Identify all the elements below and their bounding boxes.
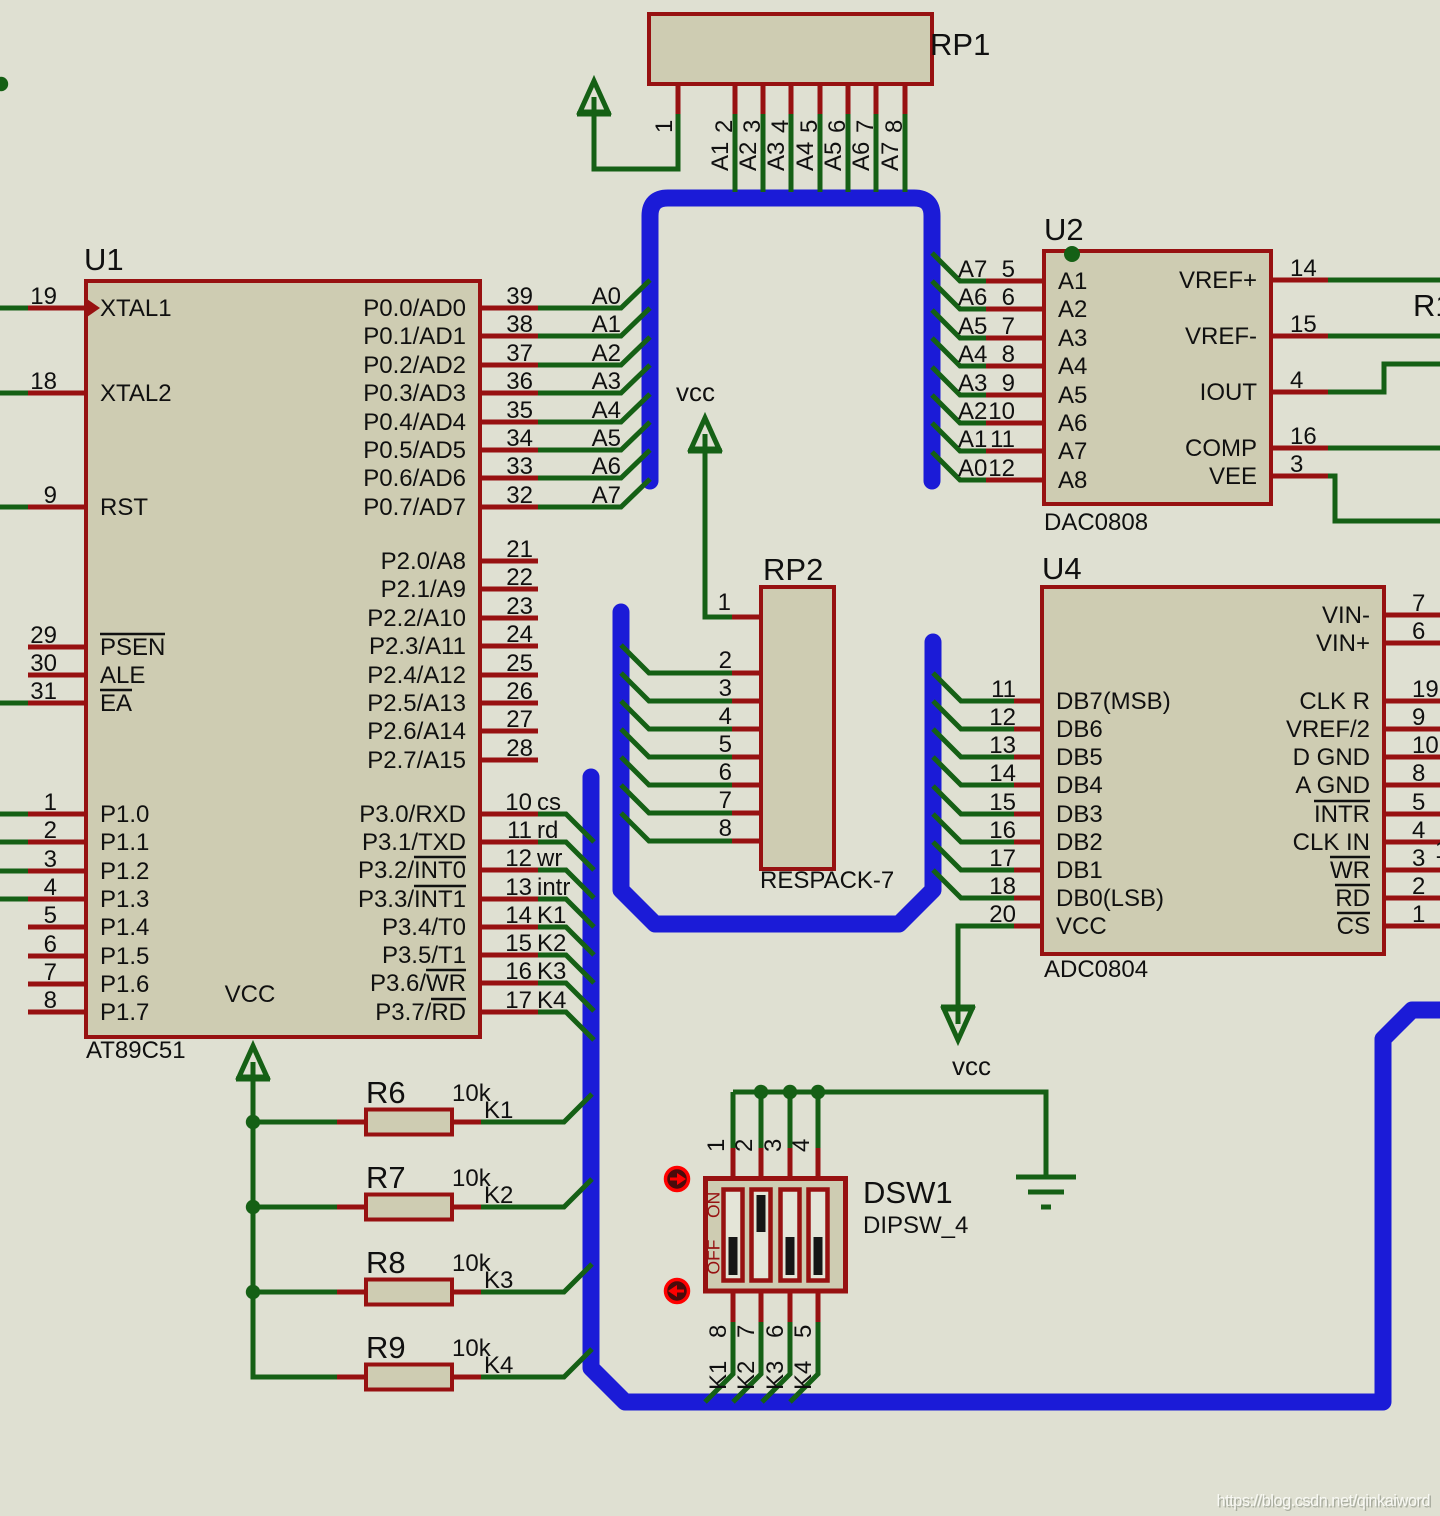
U1 pin 17 (P3.7/RD) stub	[480, 1010, 538, 1015]
svg-text:8: 8	[1002, 341, 1015, 368]
wire VREF- to right edge	[1328, 334, 1440, 339]
svg-text:intr: intr	[537, 874, 570, 901]
U1 pin 36 (P0.3/AD3) stub	[480, 391, 538, 396]
U2 pin 6 (A2) stub	[986, 307, 1044, 312]
svg-text:K1: K1	[537, 902, 566, 929]
wire P1.2 to left edge	[0, 869, 28, 874]
wire from data bus to RP2 pin 6	[621, 757, 732, 785]
svg-text:P3.2/INT0: P3.2/INT0	[358, 857, 466, 884]
svg-text:RESPACK-7: RESPACK-7	[760, 867, 894, 894]
svg-text:P0.5/AD5: P0.5/AD5	[363, 437, 466, 464]
svg-text:ADC0804: ADC0804	[1044, 956, 1148, 983]
resistor R6 body	[366, 1110, 452, 1135]
svg-text:A6: A6	[1058, 410, 1087, 437]
wire A4 from address bus to U2	[932, 338, 986, 366]
svg-text:P2.0/A8: P2.0/A8	[381, 548, 466, 575]
RP2 pin 1 stub	[732, 615, 761, 620]
wire DSW1 pin 4 to vcc rail	[816, 1092, 821, 1148]
U4 pin 9 (VREF/2) stub	[1384, 727, 1440, 732]
svg-text:P2.4/A12: P2.4/A12	[367, 662, 466, 689]
svg-text:A7: A7	[1058, 438, 1087, 465]
wire A7 from RP1 pin 8 to address bus	[903, 114, 908, 192]
wire across DSW1 top pins to ground	[733, 1092, 1046, 1175]
svg-text:7: 7	[719, 787, 732, 814]
svg-text:A7: A7	[958, 256, 987, 283]
RP1 pin 3 stub	[761, 84, 766, 114]
DSW1 bottom pin 7 stub	[759, 1293, 764, 1322]
svg-text:P1.6: P1.6	[100, 971, 149, 998]
U4 pin 1 (CS) stub	[1384, 924, 1440, 929]
svg-text:A3: A3	[592, 368, 621, 395]
svg-text:P1.1: P1.1	[100, 829, 149, 856]
svg-text:DB5: DB5	[1056, 744, 1103, 771]
wire P1.3 to left edge	[0, 897, 28, 902]
svg-text:12: 12	[505, 845, 532, 872]
svg-text:1: 1	[1435, 837, 1440, 864]
svg-text:4: 4	[767, 120, 794, 133]
wire A1 from U1 to address bus	[538, 308, 650, 336]
svg-text:31: 31	[30, 678, 57, 705]
junction dot on VCC rail at R7	[246, 1200, 260, 1214]
U1 pin 31 (EA) stub	[28, 701, 86, 706]
svg-text:12: 12	[988, 455, 1015, 482]
wire A4 from U1 to address bus	[538, 394, 650, 422]
wire EA to left edge	[0, 701, 28, 706]
svg-text:10: 10	[988, 398, 1015, 425]
svg-text:36: 36	[506, 368, 533, 395]
bus from RP1 pins down both sides (address bus loop)	[650, 198, 932, 481]
power arrow vcc below U4	[941, 1005, 975, 1040]
U1 pin 3 (P1.2) stub	[28, 869, 86, 874]
U4 pin 8 (A GND) stub	[1384, 783, 1440, 788]
U2 pin 14 (VREF+) stub	[1271, 278, 1328, 283]
svg-text:U1: U1	[84, 242, 124, 277]
svg-text:R7: R7	[366, 1160, 406, 1195]
U4 pin 20 (VCC) stub	[1014, 924, 1042, 929]
U2 pin 16 (COMP) stub	[1271, 446, 1328, 451]
wire A1 from RP1 pin 2 to address bus	[733, 114, 738, 192]
svg-text:cs: cs	[537, 789, 561, 816]
svg-text:K2: K2	[733, 1361, 760, 1390]
svg-text:A4: A4	[1058, 353, 1087, 380]
svg-text:P3.4/T0: P3.4/T0	[382, 914, 466, 941]
svg-text:3: 3	[739, 120, 766, 133]
svg-text:18: 18	[30, 368, 57, 395]
svg-text:P3.7/RD: P3.7/RD	[375, 999, 466, 1026]
svg-text:5: 5	[719, 731, 732, 758]
svg-text:3: 3	[1290, 451, 1303, 478]
wire RST to left edge	[0, 505, 28, 510]
DSW1 top pin 3 stub	[788, 1148, 793, 1177]
wire COMP to right edge	[1328, 446, 1440, 451]
wire U4 VCC down to power arrow	[958, 926, 1014, 1008]
svg-text:7: 7	[1002, 313, 1015, 340]
U2 pin 9 (A5) stub	[986, 393, 1044, 398]
wire VCC rail to R7	[253, 1205, 337, 1210]
U4 pin 5 (INTR) stub	[1384, 812, 1440, 817]
svg-text:1: 1	[651, 120, 678, 133]
svg-text:19: 19	[30, 283, 57, 310]
U1 pin 34 (P0.5/AD5) stub	[480, 448, 538, 453]
wire from data bus to RP2 pin 5	[621, 729, 732, 757]
U4 pin 16 (DB2) stub	[1014, 840, 1042, 845]
svg-text:K2: K2	[484, 1182, 513, 1209]
U2 pin-1 marker dot	[1064, 246, 1080, 262]
svg-text:4: 4	[788, 1139, 815, 1152]
DSW1 switch slot 3	[781, 1190, 800, 1281]
svg-text:P2.1/A9: P2.1/A9	[381, 576, 466, 603]
wire IOUT to right edge	[1328, 364, 1440, 392]
junction dot DSW1 pin 2	[754, 1085, 768, 1099]
svg-text:2: 2	[711, 120, 738, 133]
svg-text:DB3: DB3	[1056, 801, 1103, 828]
RP2 pin 8 stub	[732, 839, 761, 844]
wire A3 from RP1 pin 4 to address bus	[789, 114, 794, 192]
svg-text:1: 1	[703, 1139, 730, 1152]
wire A4 from RP1 pin 5 to address bus	[818, 114, 823, 192]
svg-text:14: 14	[989, 760, 1016, 787]
svg-text:16: 16	[505, 958, 532, 985]
wire K4 from R9 to switch bus	[481, 1349, 592, 1377]
DSW1 toggle actuator down	[666, 1280, 689, 1303]
U1 pin 4 (P1.3) stub	[28, 897, 86, 902]
svg-text:25: 25	[506, 650, 533, 677]
svg-text:39: 39	[506, 283, 533, 310]
U1 pin 14 (P3.4/T0) stub	[480, 925, 538, 930]
svg-text:7: 7	[852, 120, 879, 133]
svg-text:K4: K4	[484, 1352, 513, 1379]
wire XTAL1 to left edge	[0, 306, 28, 311]
svg-text:28: 28	[506, 735, 533, 762]
U1 pin 11 (P3.1/TXD) stub	[480, 840, 538, 845]
svg-text:U4: U4	[1042, 551, 1082, 586]
DAC U2 body	[1044, 251, 1271, 504]
svg-text:A6: A6	[592, 453, 621, 480]
svg-text:2: 2	[719, 647, 732, 674]
svg-text:6: 6	[824, 120, 851, 133]
svg-text:DB0(LSB): DB0(LSB)	[1056, 885, 1164, 912]
svg-text:A4: A4	[958, 341, 987, 368]
svg-text:vcc: vcc	[676, 377, 715, 407]
resistor R6 left stub	[337, 1120, 366, 1125]
svg-text:A5: A5	[958, 313, 987, 340]
U1 pin 7 (P1.6) stub	[28, 982, 86, 987]
U4 pin 4 (CLK IN) stub	[1384, 840, 1440, 845]
svg-text:16: 16	[1290, 423, 1317, 450]
svg-text:10: 10	[505, 789, 532, 816]
U4 pin 7 (VIN-) stub	[1384, 613, 1440, 618]
svg-text:XTAL2: XTAL2	[100, 380, 172, 407]
svg-text:20: 20	[989, 901, 1016, 928]
RP1 pin 1 stub	[676, 84, 681, 114]
svg-text:DB7(MSB): DB7(MSB)	[1056, 688, 1171, 715]
svg-text:A1: A1	[958, 426, 987, 453]
U1 pin 6 (P1.5) stub	[28, 954, 86, 959]
svg-text:P3.3/INT1: P3.3/INT1	[358, 886, 466, 913]
svg-text:6: 6	[44, 931, 57, 958]
U1 pin 5 (P1.4) stub	[28, 925, 86, 930]
DIP switch DSW1 body	[706, 1179, 846, 1292]
svg-text:RST: RST	[100, 494, 148, 521]
wire from data bus to U4 DB6	[933, 701, 1014, 729]
wire VEE down and to right edge	[1328, 476, 1440, 521]
U1 pin 16 (P3.6/WR) stub	[480, 981, 538, 986]
svg-text:38: 38	[506, 311, 533, 338]
svg-text:9: 9	[1412, 704, 1425, 731]
svg-text:rd: rd	[537, 817, 558, 844]
junction dot DSW1 pin 4	[811, 1085, 825, 1099]
svg-text:A4: A4	[592, 397, 621, 424]
power vcc arrow below U1	[236, 1046, 270, 1081]
svg-text:ALE: ALE	[100, 662, 145, 689]
svg-text:A0: A0	[592, 283, 621, 310]
svg-text:1: 1	[1412, 901, 1425, 928]
svg-text:DB2: DB2	[1056, 829, 1103, 856]
svg-text:8: 8	[1412, 760, 1425, 787]
svg-text:33: 33	[506, 453, 533, 480]
svg-text:A6: A6	[958, 284, 987, 311]
svg-text:9: 9	[44, 482, 57, 509]
svg-text:INTR: INTR	[1314, 801, 1370, 828]
resistor pack RP2 body	[761, 587, 834, 869]
wire from data bus to U4 DB2	[933, 814, 1014, 842]
svg-text:5: 5	[1412, 789, 1425, 816]
DSW1 bottom pin 6 stub	[788, 1293, 793, 1322]
svg-text:P3.1/TXD: P3.1/TXD	[362, 829, 466, 856]
svg-text:A3: A3	[763, 142, 790, 171]
wire intr from U1 to switch bus	[538, 899, 594, 927]
junction dot on VCC rail at R8	[246, 1285, 260, 1299]
RP2 pin 7 stub	[732, 811, 761, 816]
wire from data bus to U4 DB0(LSB)	[933, 870, 1014, 898]
svg-text:XTAL1: XTAL1	[100, 295, 172, 322]
wire VCC rail to R6	[253, 1120, 337, 1125]
svg-text:4: 4	[1412, 817, 1425, 844]
wire A3 from address bus to U2	[932, 367, 986, 395]
U4 pin 11 (DB7(MSB)) stub	[1014, 699, 1042, 704]
svg-text:P1.0: P1.0	[100, 801, 149, 828]
DSW1 switch slot 4	[809, 1190, 828, 1281]
svg-text:19: 19	[1412, 676, 1439, 703]
svg-text:9: 9	[1002, 370, 1015, 397]
svg-text:7: 7	[1412, 590, 1425, 617]
svg-text:29: 29	[30, 622, 57, 649]
wire from data bus to U4 DB4	[933, 757, 1014, 785]
RP1 pin 2 stub	[733, 84, 738, 114]
svg-text:K2: K2	[537, 930, 566, 957]
svg-text:A2: A2	[735, 142, 762, 171]
svg-text:32: 32	[506, 482, 533, 509]
svg-text:15: 15	[989, 789, 1016, 816]
svg-text:17: 17	[505, 987, 532, 1014]
svg-text:VREF-: VREF-	[1185, 323, 1257, 350]
wire K3 from U1 to switch bus	[538, 983, 594, 1011]
U1 pin 9 (RST) stub	[28, 505, 86, 510]
svg-text:P0.0/AD0: P0.0/AD0	[363, 295, 466, 322]
svg-text:3: 3	[719, 675, 732, 702]
svg-text:6: 6	[762, 1325, 789, 1338]
U1 XTAL1 clock arrowhead	[87, 299, 100, 317]
svg-text:3: 3	[44, 846, 57, 873]
U4 pin 13 (DB5) stub	[1014, 755, 1042, 760]
svg-text:26: 26	[506, 678, 533, 705]
DSW1 top pin 2 stub	[759, 1148, 764, 1177]
RP1 pin 4 stub	[789, 84, 794, 114]
svg-text:8: 8	[705, 1325, 732, 1338]
svg-text:P2.6/A14: P2.6/A14	[367, 718, 466, 745]
U1 pin 18 (XTAL2) stub	[28, 391, 86, 396]
svg-text:21: 21	[506, 536, 533, 563]
RP1 pin 8 stub	[903, 84, 908, 114]
ground symbol right of DSW1	[1016, 1177, 1076, 1207]
svg-text:7: 7	[733, 1325, 760, 1338]
bus from U1 P3 pins to DSW1 and right edge	[591, 777, 1440, 1402]
svg-text:VREF/2: VREF/2	[1286, 716, 1370, 743]
svg-text:COMP: COMP	[1185, 435, 1257, 462]
svg-text:15: 15	[1290, 311, 1317, 338]
U4 pin 18 (DB0(LSB)) stub	[1014, 896, 1042, 901]
svg-text:6: 6	[1412, 618, 1425, 645]
U1 pin 13 (P3.3/INT1) stub	[480, 897, 538, 902]
svg-text:P3.5/T1: P3.5/T1	[382, 942, 466, 969]
svg-text:RD: RD	[1335, 885, 1370, 912]
resistor pack RP1 body	[649, 14, 932, 84]
svg-text:8: 8	[44, 987, 57, 1014]
resistor R6 right stub	[452, 1120, 481, 1125]
U4 pin 17 (DB1) stub	[1014, 868, 1042, 873]
svg-text:35: 35	[506, 397, 533, 424]
svg-text:5: 5	[796, 120, 823, 133]
wire A0 from address bus to U2	[932, 452, 986, 480]
svg-text:8: 8	[881, 120, 908, 133]
svg-text:P0.3/AD3: P0.3/AD3	[363, 380, 466, 407]
U2 pin 11 (A7) stub	[986, 449, 1044, 454]
wire DSW1 pin 2 to vcc rail	[759, 1092, 764, 1148]
svg-text:P0.2/AD2: P0.2/AD2	[363, 352, 466, 379]
U1 pin 27 (P2.6/A14) stub	[480, 729, 538, 734]
svg-text:6: 6	[1002, 284, 1015, 311]
U1 pin 28 (P2.7/A15) stub	[480, 758, 538, 763]
svg-text:22: 22	[506, 564, 533, 591]
svg-text:DIPSW_4: DIPSW_4	[863, 1212, 968, 1239]
svg-text:U2: U2	[1044, 212, 1084, 247]
svg-text:5: 5	[790, 1325, 817, 1338]
clipped junction dot at left edge	[0, 77, 8, 91]
svg-text:K1: K1	[484, 1097, 513, 1124]
DSW1 top pin 1 stub	[731, 1148, 736, 1177]
U1 pin 30 (ALE) stub	[28, 673, 86, 678]
svg-text:30: 30	[30, 650, 57, 677]
svg-text:12: 12	[989, 704, 1016, 731]
svg-text:wr: wr	[536, 845, 562, 872]
svg-text:K3: K3	[537, 958, 566, 985]
wire K3 from DSW1 pin 6 to switch bus	[762, 1322, 790, 1402]
resistor R7 left stub	[337, 1205, 366, 1210]
resistor R8 body	[366, 1280, 452, 1305]
svg-text:14: 14	[1290, 255, 1317, 282]
svg-text:P1.4: P1.4	[100, 914, 149, 941]
svg-text:A GND: A GND	[1295, 772, 1370, 799]
RP2 pin 4 stub	[732, 727, 761, 732]
svg-text:3: 3	[1412, 845, 1425, 872]
svg-text:K4: K4	[790, 1361, 817, 1390]
svg-text:VCC: VCC	[1056, 913, 1107, 940]
wire K1 from DSW1 pin 8 to switch bus	[705, 1322, 733, 1402]
resistor R7 right stub	[452, 1205, 481, 1210]
svg-text:VEE: VEE	[1209, 463, 1257, 490]
svg-text:P1.7: P1.7	[100, 999, 149, 1026]
svg-text:PSEN: PSEN	[100, 634, 165, 661]
wire A1 from address bus to U2	[932, 423, 986, 451]
svg-text:13: 13	[505, 874, 532, 901]
DSW1 bottom pin 8 stub	[731, 1293, 736, 1322]
wire A2 from U1 to address bus	[538, 337, 650, 365]
svg-text:4: 4	[44, 874, 57, 901]
wire K2 from R7 to switch bus	[481, 1179, 592, 1207]
svg-text:IOUT: IOUT	[1200, 379, 1258, 406]
svg-text:P1.2: P1.2	[100, 858, 149, 885]
U4 pin 2 (RD) stub	[1384, 896, 1440, 901]
svg-text:P0.7/AD7: P0.7/AD7	[363, 494, 466, 521]
wire K1 from U1 to switch bus	[538, 927, 594, 955]
svg-text:P2.5/A13: P2.5/A13	[367, 690, 466, 717]
U1 pin 33 (P0.6/AD6) stub	[480, 476, 538, 481]
svg-text:VIN-: VIN-	[1322, 602, 1370, 629]
RP1 pin 5 stub	[818, 84, 823, 114]
U4 pin 3 (WR) stub	[1384, 868, 1440, 873]
wire K4 from DSW1 pin 5 to switch bus	[790, 1322, 818, 1402]
svg-text:OFF: OFF	[704, 1240, 724, 1275]
svg-text:CS: CS	[1337, 913, 1370, 940]
ADC U4 body	[1042, 587, 1384, 954]
svg-text:2: 2	[731, 1139, 758, 1152]
wire A6 from RP1 pin 7 to address bus	[874, 114, 879, 192]
wire K2 from DSW1 pin 7 to switch bus	[733, 1322, 761, 1402]
svg-text:A3: A3	[1058, 325, 1087, 352]
svg-text:K3: K3	[484, 1267, 513, 1294]
svg-text:R8: R8	[366, 1245, 406, 1280]
svg-text:EA: EA	[100, 690, 132, 717]
svg-text:3: 3	[760, 1139, 787, 1152]
U1 pin 23 (P2.2/A10) stub	[480, 616, 538, 621]
U2 pin 15 (VREF-) stub	[1271, 334, 1328, 339]
wire from data bus to RP2 pin 3	[621, 673, 732, 701]
svg-text:A0: A0	[958, 455, 987, 482]
U4 pin 6 (VIN+) stub	[1384, 641, 1440, 646]
wire from data bus to RP2 pin 7	[621, 785, 732, 813]
svg-text:4: 4	[1290, 367, 1303, 394]
wire from data bus to U4 DB3	[933, 786, 1014, 814]
wire A3 from U1 to address bus	[538, 365, 650, 393]
svg-text:K1: K1	[705, 1361, 732, 1390]
DSW1 switch slot 1	[724, 1190, 743, 1281]
DSW1 bottom pin 5 stub	[816, 1293, 821, 1322]
watermark	[1216, 1492, 1431, 1512]
svg-text:5: 5	[44, 902, 57, 929]
wire XTAL2 to left edge	[0, 391, 28, 396]
wire cs from U1 to switch bus	[538, 814, 594, 842]
svg-text:34: 34	[506, 425, 533, 452]
DSW1 top pin 4 stub	[816, 1148, 821, 1177]
svg-text:A8: A8	[1058, 467, 1087, 494]
svg-text:VIN+: VIN+	[1316, 630, 1370, 657]
resistor R9 body	[366, 1365, 452, 1390]
svg-text:13: 13	[989, 732, 1016, 759]
svg-text:P0.4/AD4: P0.4/AD4	[363, 409, 466, 436]
RP2 pin 3 stub	[732, 699, 761, 704]
svg-text:P0.6/AD6: P0.6/AD6	[363, 465, 466, 492]
svg-text:4: 4	[719, 703, 732, 730]
